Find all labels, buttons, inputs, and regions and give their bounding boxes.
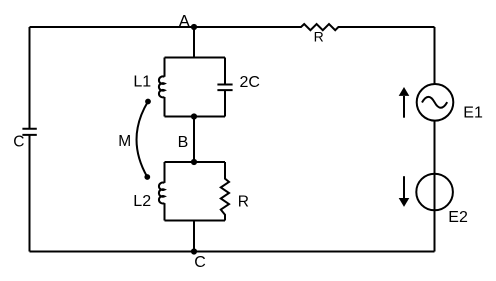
svg-text:2C: 2C bbox=[240, 74, 260, 91]
svg-text:R: R bbox=[314, 29, 324, 45]
svg-text:C: C bbox=[13, 133, 24, 150]
svg-text:R: R bbox=[238, 194, 249, 211]
svg-text:A: A bbox=[179, 12, 190, 30]
svg-text:B: B bbox=[178, 134, 189, 151]
svg-text:E2: E2 bbox=[448, 209, 468, 226]
svg-text:M: M bbox=[118, 133, 131, 150]
svg-text:L2: L2 bbox=[133, 193, 151, 210]
svg-text:L1: L1 bbox=[133, 74, 151, 91]
svg-text:C: C bbox=[194, 254, 206, 271]
svg-text:E1: E1 bbox=[463, 104, 483, 121]
